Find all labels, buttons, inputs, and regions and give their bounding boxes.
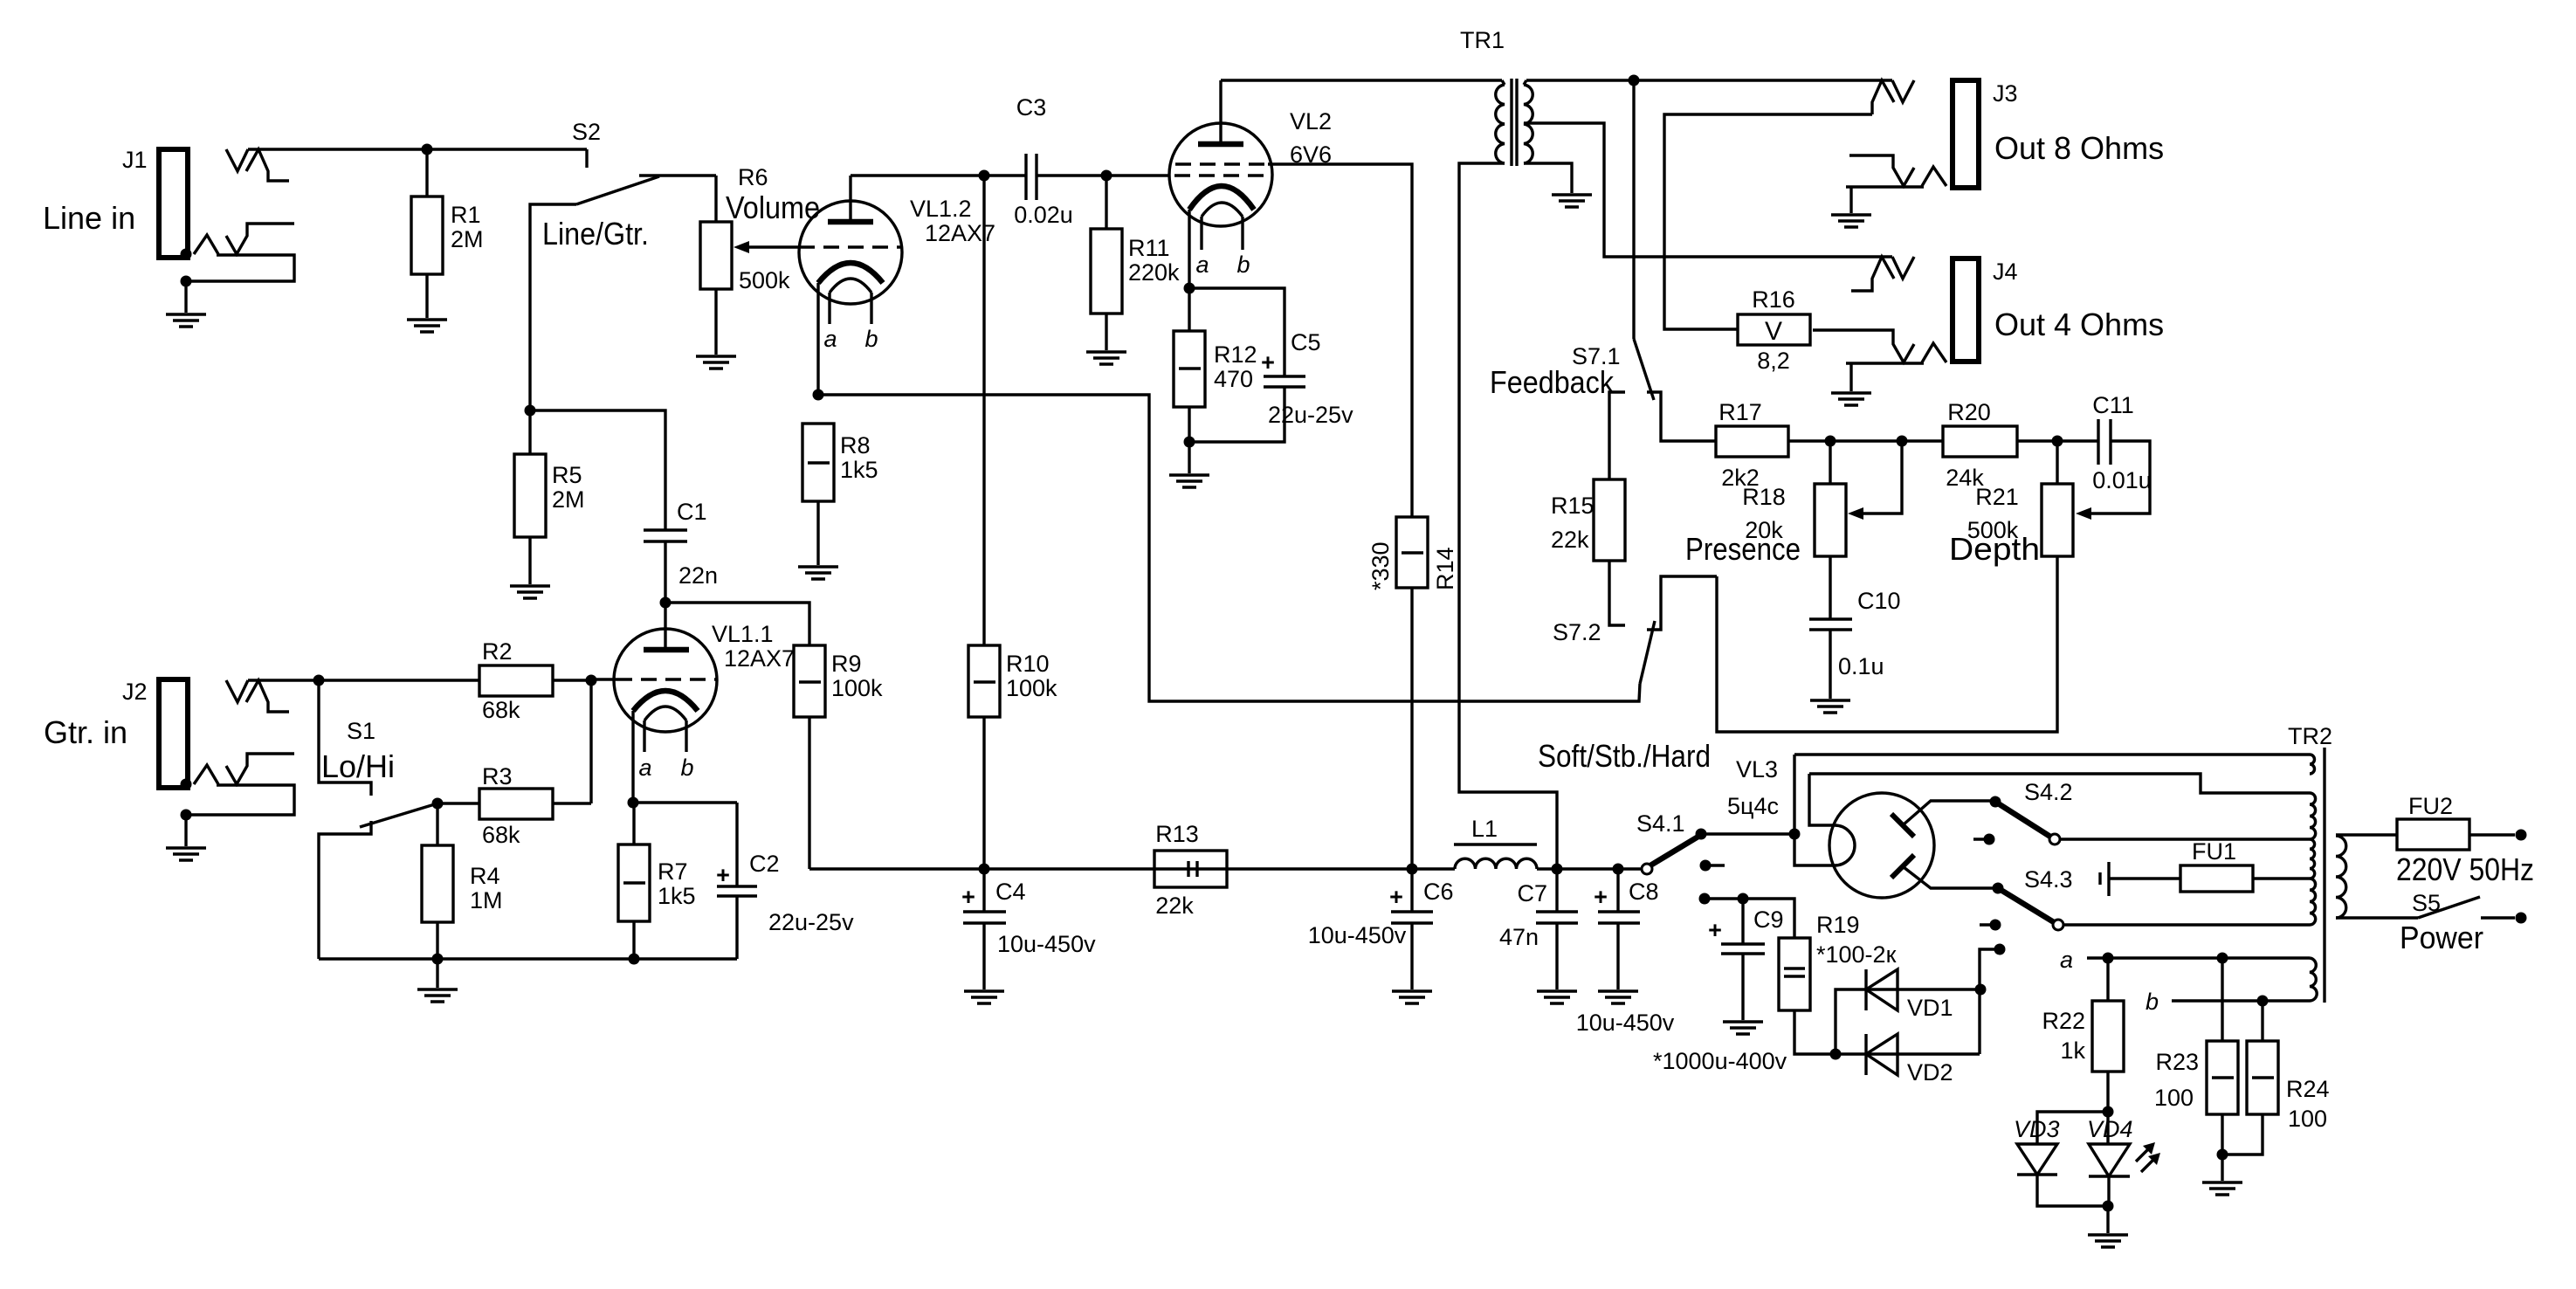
svg-text:R19: R19 [1816, 912, 1860, 938]
jack J2 [44, 679, 294, 821]
svg-text:C9: C9 [1753, 906, 1784, 933]
node R21 top [2052, 436, 2063, 447]
svg-text:C1: C1 [677, 499, 707, 525]
svg-text:J1: J1 [122, 147, 148, 173]
svg-text:C2: C2 [749, 851, 780, 877]
svg-text:100k: 100k [1006, 675, 1057, 701]
node R11 top [1101, 170, 1112, 182]
wire VD node to S4.3 contact [1980, 949, 2000, 989]
wire J2 sleeve to ground [184, 815, 187, 846]
wire cathode node to C2 [633, 801, 737, 803]
ground under R12 [1169, 475, 1209, 487]
wire J1 tip to S2 [248, 148, 587, 150]
svg-text:47n: 47n [1499, 924, 1539, 950]
svg-text:22k: 22k [1155, 893, 1194, 919]
svg-text:Power: Power [2400, 920, 2483, 955]
node VL2 cathode [1184, 283, 1195, 294]
node R10 top [979, 170, 990, 182]
transformer TR2 [2288, 723, 2346, 1003]
wire TR1 secondary tap to J4 [1524, 123, 1892, 257]
wire S2 to R6 top [639, 174, 716, 176]
triode VL1.2 [799, 176, 995, 395]
svg-text:Presence: Presence [1685, 531, 1801, 567]
node J1/R1 junction [422, 144, 433, 155]
svg-text:500k: 500k [739, 267, 790, 293]
node R2/VL1.1 grid [586, 675, 597, 686]
svg-text:J2: J2 [122, 679, 148, 705]
svg-text:R12: R12 [1214, 341, 1257, 368]
svg-text:22n: 22n [678, 562, 718, 589]
svg-text:Lo/Hi: Lo/Hi [321, 748, 395, 784]
svg-text:Out 4 Ohms: Out 4 Ohms [1994, 307, 2164, 342]
switch S4.1 [1636, 810, 1794, 905]
wire to ground [2221, 1155, 2223, 1181]
node C4 [979, 864, 990, 875]
svg-text:J3: J3 [1993, 80, 2018, 107]
svg-text:Line in: Line in [43, 200, 135, 236]
resistor R1 [411, 149, 484, 318]
wire R3 right to grid node [589, 680, 592, 803]
svg-text:S7.2: S7.2 [1553, 619, 1601, 645]
svg-text:R24: R24 [2286, 1076, 2330, 1102]
jack J4 [1813, 257, 2164, 363]
svg-text:2M: 2M [552, 486, 585, 513]
node S4 lower contact [1994, 944, 2006, 955]
svg-text:S4.1: S4.1 [1636, 810, 1685, 837]
resistor R2 [479, 638, 591, 723]
potentiometer R6 Volume [700, 164, 820, 355]
svg-text:R17: R17 [1718, 399, 1762, 425]
wire J1 sleeve to ground [184, 281, 187, 313]
svg-text:Feedback: Feedback [1490, 364, 1615, 400]
svg-text:VD4: VD4 [2087, 1116, 2133, 1142]
wire node to C1 [530, 410, 665, 530]
svg-text:b: b [680, 755, 693, 781]
capacitor C11 [2092, 392, 2152, 493]
led VD4 [2087, 1112, 2160, 1206]
ground under C4 [964, 991, 1004, 1003]
ground under R11 [1086, 352, 1126, 364]
svg-text:0.1u: 0.1u [1838, 653, 1884, 679]
svg-text:12AX7: 12AX7 [724, 645, 795, 672]
switch S7.1 Feedback [1490, 80, 1716, 441]
svg-text:1k5: 1k5 [840, 457, 878, 483]
svg-text:C10: C10 [1857, 588, 1901, 614]
potentiometer R21 Depth [1949, 441, 2073, 567]
svg-text:Soft/Stb./Hard: Soft/Stb./Hard [1538, 738, 1711, 774]
svg-text:22u-25v: 22u-25v [1268, 402, 1353, 428]
svg-text:8,2: 8,2 [1757, 348, 1790, 374]
svg-text:VL1.2: VL1.2 [910, 196, 972, 222]
node VD1 output [1975, 984, 1987, 996]
svg-text:C8: C8 [1629, 879, 1659, 905]
ground under TR1 [1552, 195, 1592, 207]
svg-text:1M: 1M [470, 887, 503, 913]
svg-text:C4: C4 [995, 879, 1026, 905]
resistor R13 [1154, 821, 1227, 919]
node C1/VL1.1 plate [660, 597, 672, 609]
transformer TR1 [1460, 27, 1533, 166]
resistor R17 [1716, 399, 1830, 491]
capacitor C8 [1576, 869, 1675, 1036]
svg-text:b: b [864, 326, 878, 352]
wire feedback from R8 node [818, 395, 1640, 701]
resistor R22 [2042, 958, 2124, 1112]
svg-text:R21: R21 [1975, 484, 2019, 510]
wire TR2 HV top [1794, 753, 2310, 755]
ground under J3 [1831, 215, 1871, 227]
node C7 [1552, 864, 1563, 875]
svg-text:220V 50Hz: 220V 50Hz [2396, 851, 2534, 887]
svg-text:R22: R22 [2042, 1008, 2085, 1034]
wire J2 tip to R2 [248, 679, 479, 681]
capacitor C4 [961, 869, 1096, 989]
node R17/R18 [1825, 436, 1836, 447]
ground under C8 [1598, 991, 1638, 1003]
svg-text:a: a [638, 755, 651, 781]
svg-text:V: V [1765, 317, 1782, 346]
node S4.1 upper output [1789, 829, 1801, 840]
wire VD2 to VD1 node [1978, 989, 1980, 1054]
svg-text:VL1.1: VL1.1 [712, 621, 774, 647]
svg-text:5ц4с: 5ц4с [1727, 793, 1779, 819]
ground under J2 [166, 848, 206, 860]
svg-text:100k: 100k [831, 675, 883, 701]
ground under C7 [1537, 991, 1577, 1003]
svg-text:FU2: FU2 [2408, 793, 2453, 819]
svg-text:Gtr. in: Gtr. in [44, 714, 127, 750]
node C8 [1613, 864, 1624, 875]
svg-text:a: a [2060, 947, 2073, 973]
ground under bottom bus [417, 989, 458, 1002]
triode VL1.1 [591, 603, 795, 803]
svg-text:R7: R7 [658, 858, 688, 885]
svg-text:TR2: TR2 [2288, 723, 2332, 749]
svg-text:b: b [2146, 989, 2159, 1015]
svg-text:TR1: TR1 [1460, 27, 1505, 53]
wire S7.2 to R21 bottom loop [1717, 556, 2057, 732]
beam tetrode VL2 [1169, 80, 1332, 288]
capacitor C9 [1653, 899, 1787, 1074]
fuse FU1 [2100, 838, 2310, 896]
resistor R16 [1738, 286, 1810, 374]
node C9 top [1738, 893, 1749, 905]
svg-text:*1000u-400v: *1000u-400v [1653, 1048, 1787, 1074]
resistor R19 [1743, 899, 1897, 1054]
ground under J4 [1831, 393, 1871, 405]
svg-text:R18: R18 [1742, 484, 1786, 510]
svg-text:VL3: VL3 [1736, 756, 1778, 782]
svg-text:R9: R9 [831, 651, 862, 677]
svg-text:R20: R20 [1947, 399, 1991, 425]
resistor R9 [794, 645, 883, 869]
wire heater winding a [2060, 947, 2310, 973]
ground under C10 [1810, 700, 1850, 713]
switch S1 [319, 680, 437, 959]
node R23/R24 bottom [2217, 1149, 2228, 1161]
resistor R3 [437, 763, 591, 848]
node VL1.2 cathode / R8 [813, 389, 824, 401]
resistor R24 [2222, 1001, 2330, 1155]
svg-text:VD3: VD3 [2014, 1116, 2060, 1142]
svg-text:R23: R23 [2155, 1049, 2199, 1075]
node R24 top [2257, 996, 2269, 1007]
jack J3 [1846, 80, 2164, 188]
svg-text:68k: 68k [482, 697, 520, 723]
svg-text:100: 100 [2288, 1106, 2327, 1132]
node mains terminal top [2516, 830, 2527, 841]
resistor R14 [1367, 517, 1458, 869]
ground under R23 [2202, 1182, 2242, 1195]
resistor R10 [968, 176, 1057, 869]
wire to ground [2106, 1206, 2109, 1233]
svg-text:VD1: VD1 [1907, 995, 1953, 1021]
capacitor C3 [1014, 94, 1073, 228]
svg-text:R10: R10 [1006, 651, 1050, 677]
svg-text:S4.3: S4.3 [2024, 866, 2073, 893]
switch S2 [542, 119, 659, 252]
svg-text:C11: C11 [2092, 392, 2134, 418]
svg-text:R15: R15 [1551, 493, 1595, 519]
node mains terminal bottom [2516, 913, 2527, 924]
rectifier tube VL3 [1727, 756, 1998, 898]
svg-text:R2: R2 [482, 638, 513, 665]
svg-text:VD2: VD2 [1907, 1059, 1953, 1086]
svg-text:*330: *330 [1367, 541, 1394, 590]
svg-text:R14: R14 [1432, 547, 1458, 590]
svg-text:+: + [1261, 349, 1275, 376]
wire R12 bottom to ground [1188, 442, 1190, 473]
jack J1 [43, 147, 294, 287]
capacitor C6 [1308, 869, 1454, 989]
svg-text:R1: R1 [451, 202, 481, 228]
svg-text:S1: S1 [347, 718, 375, 744]
zener diode VD3 [2014, 1112, 2108, 1206]
svg-text:1k5: 1k5 [658, 883, 696, 909]
svg-text:220k: 220k [1128, 259, 1180, 286]
svg-text:R4: R4 [470, 863, 500, 889]
svg-text:C7: C7 [1517, 880, 1547, 906]
diode VD1 [1836, 969, 1980, 1054]
svg-text:L1: L1 [1471, 816, 1498, 842]
node C6 / R14 bottom [1407, 864, 1418, 875]
diode VD2 [1836, 1034, 1980, 1086]
capacitor C1 [644, 499, 718, 603]
resistor R11 [1091, 176, 1180, 350]
wire S2 to R5/C1 node [530, 204, 576, 410]
svg-text:10u-450v: 10u-450v [1308, 922, 1407, 948]
ground under C9 [1723, 1022, 1763, 1034]
svg-text:C6: C6 [1423, 879, 1454, 905]
capacitor C10 [1809, 588, 1901, 699]
wire presence row [1830, 439, 1943, 442]
wire heater winding b [2146, 989, 2310, 1015]
node S1 branch [313, 675, 325, 686]
svg-text:R13: R13 [1155, 821, 1199, 847]
svg-text:R11: R11 [1128, 235, 1170, 261]
node feedback takeoff [1629, 75, 1640, 86]
wire TR1 secondary top to J3 [1526, 79, 1892, 81]
wire J3 ring to R16 [1664, 114, 1872, 329]
wire S4.1 hard feed up to TR2 [1794, 755, 1835, 865]
node VD2/R19 junction [1830, 1049, 1842, 1060]
switch S4.2 [1973, 779, 2310, 845]
wire VL1.2 plate to C3 [851, 174, 1026, 176]
node R5/C1 [525, 405, 536, 417]
resistor R23 [2154, 958, 2238, 1155]
resistor R15 [1551, 392, 1625, 625]
node R3/R4 [432, 798, 444, 810]
svg-text:Depth: Depth [1949, 531, 2040, 567]
svg-text:10u-450v: 10u-450v [1576, 1010, 1675, 1036]
svg-text:+: + [1389, 884, 1403, 910]
svg-text:R6: R6 [738, 164, 768, 190]
wire VL3 filament to TR2 5V winding [1809, 774, 2310, 793]
resistor R12 [1174, 288, 1257, 442]
svg-text:S4.2: S4.2 [2024, 779, 2073, 805]
switch S4.3 [1980, 866, 2310, 931]
resistor R8 [802, 424, 878, 565]
svg-text:+: + [1594, 884, 1608, 910]
ground under C6 [1392, 991, 1432, 1003]
wire C3 to VL2 grid [1037, 174, 1169, 176]
svg-text:C5: C5 [1291, 329, 1321, 355]
svg-text:a: a [823, 326, 837, 352]
svg-text:Line/Gtr.: Line/Gtr. [542, 216, 649, 252]
node R4 bottom [432, 954, 444, 965]
capacitor C7 [1499, 869, 1578, 989]
svg-text:b: b [1236, 252, 1250, 278]
svg-text:J4: J4 [1993, 258, 2018, 285]
wire VL2 screen to R14 [1268, 164, 1412, 517]
ground under J1 [166, 314, 206, 327]
svg-text:Volume: Volume [726, 190, 820, 225]
svg-text:0.02u: 0.02u [1014, 202, 1073, 228]
svg-text:FU1: FU1 [2192, 838, 2236, 865]
svg-text:VL2: VL2 [1290, 108, 1332, 134]
wire C11 to R21 wiper [2082, 441, 2150, 514]
svg-text:470: 470 [1214, 366, 1253, 392]
wire J4 sleeve to ground [1849, 363, 1852, 391]
svg-text:10u-450v: 10u-450v [997, 931, 1096, 957]
svg-text:R5: R5 [552, 462, 582, 488]
svg-text:2M: 2M [451, 226, 484, 252]
svg-text:22k: 22k [1551, 527, 1589, 553]
svg-text:+: + [716, 862, 730, 888]
inductor L1 [1454, 816, 1537, 869]
wire VL2 plate to TR1 [1221, 79, 1502, 81]
svg-text:22u-25v: 22u-25v [768, 909, 854, 935]
svg-text:R3: R3 [482, 763, 513, 789]
ground under R8 [798, 567, 838, 579]
node VD3/VD4 bottom [2103, 1201, 2114, 1212]
wire B+ bus [809, 867, 1641, 870]
node R23 top [2217, 953, 2228, 964]
node R22 top [2103, 953, 2114, 964]
node R12 bottom [1184, 437, 1195, 448]
svg-text:68k: 68k [482, 822, 520, 848]
wire C1 node to R9 [665, 603, 809, 645]
wire TR1 secondary bottom to ground [1524, 163, 1572, 193]
resistor R5 [514, 410, 585, 584]
switch S7.2 [1553, 576, 1717, 684]
wire bus to ground [436, 959, 438, 988]
switch S5 Power [2336, 890, 2515, 955]
svg-text:R16: R16 [1752, 286, 1795, 313]
resistor R4 [422, 803, 503, 959]
ground under R5 [510, 586, 550, 598]
svg-text:+: + [1708, 917, 1722, 943]
svg-text:100: 100 [2154, 1085, 2194, 1111]
node R18 wiper branch [1897, 436, 1908, 447]
svg-text:C3: C3 [1016, 94, 1047, 121]
wire TR1 primary bottom to C7 node [1459, 163, 1557, 869]
fuse FU2 [2336, 793, 2515, 850]
capacitor C5 [1189, 288, 1353, 442]
node VL1.1 cathode [628, 797, 639, 809]
svg-text:Out 8 Ohms: Out 8 Ohms [1994, 130, 2164, 166]
capacitor C2 [716, 803, 854, 959]
wire J3 sleeve to ground [1849, 187, 1852, 213]
svg-text:*100-2к: *100-2к [1816, 941, 1897, 968]
node R22 bottom [2103, 1106, 2114, 1118]
ground under VD4 [2088, 1235, 2128, 1247]
svg-text:R8: R8 [840, 432, 871, 458]
wire bottom bus J2 area [319, 957, 737, 960]
svg-text:+: + [961, 884, 975, 910]
node R7 bottom [629, 954, 640, 965]
svg-text:0.01u: 0.01u [2092, 467, 2152, 493]
ground under R6 [696, 356, 736, 369]
svg-text:a: a [1195, 252, 1209, 278]
potentiometer R18 Presence [1685, 441, 1902, 619]
resistor R7 [618, 803, 696, 959]
svg-text:S2: S2 [572, 119, 601, 145]
ground under R1 [407, 320, 447, 332]
svg-text:1k: 1k [2060, 1037, 2085, 1064]
resistor R20 [1943, 399, 2098, 491]
